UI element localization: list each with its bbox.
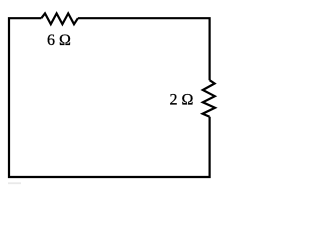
svg-text:2 Ω: 2 Ω: [170, 92, 194, 109]
smudge artifact below bottom-left corner: [8, 182, 21, 184]
wire: top edge right segment and right side down to resistor: [78, 18, 210, 80]
resistor R1 6 ohm (top, horizontal zigzag): [41, 13, 78, 24]
wire: top-left, left side and bottom of loop up to right resistor lead: [9, 18, 210, 177]
resistor R2 2 ohm (right, vertical zigzag): [203, 80, 215, 117]
svg-text:6 Ω: 6 Ω: [47, 32, 71, 49]
